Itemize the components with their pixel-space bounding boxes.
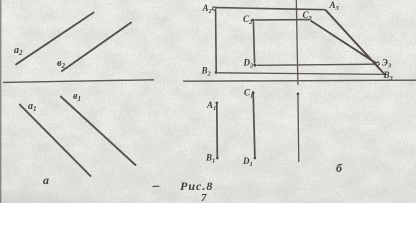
line b1	[61, 97, 136, 166]
segment C1-D1	[253, 92, 255, 158]
point B1	[216, 157, 219, 160]
vertical axis upper	[296, 0, 298, 85]
node axis lower top dot	[297, 93, 300, 96]
svg-text:7: 7	[201, 192, 207, 203]
wire C2-C3	[255, 19, 310, 21]
axis left	[3, 80, 154, 83]
svg-text:Рис.8: Рис.8	[180, 179, 213, 193]
wire B2-B3	[218, 73, 384, 75]
axis right	[183, 80, 416, 81]
point C2	[251, 19, 254, 22]
point B3	[383, 73, 385, 75]
scan left edge	[0, 0, 1, 203]
vertical axis lower	[297, 94, 300, 163]
point B2	[215, 71, 218, 74]
wire A2-A3	[216, 8, 325, 10]
caption dash	[153, 185, 160, 187]
point C1	[252, 91, 255, 94]
wire A2-B2	[215, 10, 218, 71]
wire A3-B3	[325, 10, 384, 74]
wire C2-D2	[253, 22, 254, 64]
point D1	[254, 157, 257, 160]
line a1	[20, 105, 91, 177]
line b2	[62, 23, 131, 72]
svg-text:а: а	[43, 173, 49, 187]
point D2	[253, 64, 256, 67]
line a2	[16, 13, 94, 65]
wire D2-D3	[257, 64, 376, 65]
point D3	[376, 62, 379, 65]
point A2	[213, 7, 216, 10]
point A1	[216, 102, 219, 105]
svg-text:б: б	[336, 161, 343, 175]
wire C3-D3	[311, 21, 377, 64]
segment A1-B1	[216, 103, 219, 159]
